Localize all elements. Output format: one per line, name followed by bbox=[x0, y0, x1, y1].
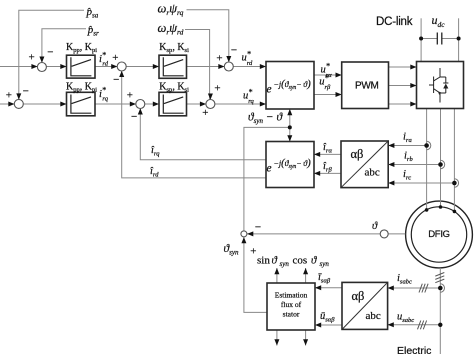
wire i_sabc measure bbox=[388, 287, 441, 289]
svg-text:+: + bbox=[28, 52, 34, 64]
igbt symbol bbox=[429, 68, 448, 103]
wire Ksp2 to SJ6 bbox=[187, 103, 207, 105]
svg-text:+: + bbox=[216, 53, 222, 65]
wire SJ2 to PI2 bbox=[23, 103, 66, 105]
block abc stator bbox=[342, 282, 388, 329]
wire rotor phase c bbox=[453, 109, 455, 212]
wire i_rd feedback bbox=[122, 70, 266, 178]
node dc rail left bbox=[419, 37, 423, 41]
wire PWM to converter b bbox=[389, 85, 417, 87]
block PI power d (Kpp,Kpi) bbox=[67, 55, 96, 78]
svg-text:sin: sin bbox=[257, 255, 270, 267]
svg-text:−: − bbox=[131, 111, 137, 123]
wire rotor phase b bbox=[440, 109, 442, 208]
arrows right-pointing bbox=[31, 64, 37, 69]
svg-text:abc: abc bbox=[366, 310, 381, 322]
arrows left-pointing bbox=[314, 152, 320, 157]
svg-text:αβ: αβ bbox=[351, 147, 364, 161]
svg-text:+: + bbox=[127, 90, 133, 102]
wire E1 to PWM lower bbox=[314, 94, 342, 96]
node rotor b on DFIG bbox=[439, 205, 443, 209]
svg-text:cos: cos bbox=[293, 255, 308, 267]
wire i_rc measure bbox=[388, 182, 452, 184]
wire i_ra measure bbox=[388, 145, 424, 147]
svg-text:syn: syn bbox=[320, 260, 330, 268]
svg-text:e: e bbox=[267, 84, 272, 96]
three-phase slashes i_sabc bbox=[419, 284, 428, 293]
wire encoder theta to SJ7 bbox=[247, 233, 405, 235]
summer SJ3 bbox=[117, 62, 126, 71]
wire EST cos out up bbox=[305, 268, 307, 283]
svg-text:−: − bbox=[47, 47, 53, 59]
wire EST theta_syn out to SJ7 bbox=[244, 237, 267, 312]
block PI current d (Ksp,Ksi) bbox=[159, 55, 187, 78]
wire SJ1 to PI1 bbox=[46, 66, 66, 68]
svg-text:+: + bbox=[250, 246, 256, 258]
wire rotor phase a bbox=[426, 109, 428, 210]
wire EST sin out up bbox=[276, 268, 278, 283]
svg-text:Estimation: Estimation bbox=[275, 291, 308, 300]
pi curve 4 bbox=[163, 95, 183, 114]
svg-text:stator: stator bbox=[283, 310, 300, 319]
block E2 rotation exp bbox=[266, 142, 314, 188]
wire SJ6 to E1 (u_rq*) bbox=[215, 103, 266, 105]
block PWM bbox=[342, 62, 389, 109]
wire PI1 to SJ3 bbox=[95, 66, 118, 68]
svg-text:+: + bbox=[202, 107, 208, 119]
dfig machine bbox=[406, 201, 473, 268]
wire u_sabc measure bbox=[388, 324, 441, 326]
svg-text:ϑ: ϑ bbox=[272, 255, 278, 267]
wire row1 input bbox=[0, 66, 38, 68]
svg-text:+: + bbox=[112, 52, 118, 64]
node theta_syn-theta branch dot bbox=[288, 125, 292, 129]
wire dc-link left leg bbox=[420, 18, 422, 61]
wire PWM to converter c bbox=[389, 103, 417, 105]
wire dot to E1 bottom bbox=[289, 109, 291, 127]
diagonal abc rotor bbox=[342, 142, 388, 187]
node dc rail right bbox=[457, 37, 461, 41]
wire i_rb measure bbox=[388, 164, 438, 166]
wire row2 input bbox=[0, 103, 15, 105]
svg-text:−: − bbox=[255, 222, 261, 234]
arrows up-pointing bbox=[119, 71, 124, 77]
svg-text:−: − bbox=[231, 44, 237, 56]
wire dc-link rail right bbox=[442, 38, 459, 40]
svg-text:flux of: flux of bbox=[281, 300, 302, 309]
wire dc-link rail left bbox=[421, 38, 437, 40]
summer SJ7 theta bbox=[241, 231, 247, 237]
sensor i_sabc bbox=[440, 284, 444, 292]
svg-text:syn: syn bbox=[280, 260, 290, 268]
arrows down-pointing bbox=[39, 57, 44, 63]
block PI power q (Kpp,Kpi) bbox=[67, 92, 96, 116]
svg-text:ϑsyn − ϑ: ϑsyn − ϑ bbox=[248, 112, 284, 126]
svg-text:ϑ: ϑ bbox=[311, 255, 317, 267]
wire SJ3 to Ksp1 bbox=[126, 66, 159, 68]
svg-text:abc: abc bbox=[365, 167, 380, 179]
svg-text:αβ: αβ bbox=[352, 289, 365, 303]
node rotor a on DFIG bbox=[425, 208, 429, 212]
wire abcR to E2 alpha bbox=[314, 153, 341, 155]
wire SJ4 to Ksp2 bbox=[145, 103, 159, 105]
wire psi_rd drop bbox=[185, 30, 210, 101]
capacitor dc-link bbox=[437, 33, 442, 45]
wire SJ5 to E1 (u_rd*) bbox=[233, 66, 266, 68]
wire psi_rq drop bbox=[187, 10, 229, 63]
wire dc-link right leg bbox=[458, 18, 460, 61]
node rotor c on DFIG bbox=[453, 210, 457, 214]
block E1 rotation exp bbox=[266, 62, 314, 110]
wire E1 to PWM upper bbox=[314, 74, 342, 76]
wire theta_syn up to exp blocks bbox=[244, 127, 290, 230]
block converter bbox=[417, 62, 464, 109]
block estimation flux bbox=[267, 283, 315, 330]
svg-text:PWM: PWM bbox=[355, 81, 379, 92]
wire abcS to EST u bbox=[315, 324, 342, 326]
wire Ksp1 to SJ5 bbox=[187, 66, 226, 68]
sensor i_rc bbox=[454, 179, 458, 187]
svg-text:DFIG: DFIG bbox=[428, 229, 450, 240]
diagonal abc stator bbox=[343, 283, 387, 328]
summer SJ5 bbox=[224, 62, 233, 71]
svg-text:ϑ: ϑ bbox=[372, 221, 378, 232]
three-phase slashes u_sabc bbox=[418, 321, 427, 330]
svg-text:e: e bbox=[267, 163, 272, 175]
wire PI2 to SJ4 bbox=[95, 103, 137, 105]
encoder circle bbox=[380, 230, 388, 238]
wire abcS to EST i bbox=[315, 287, 342, 289]
summer SJ2 bbox=[14, 99, 23, 108]
summer SJ4 bbox=[136, 100, 145, 109]
pi curve 1 bbox=[71, 57, 92, 76]
wire abcR to E2 beta bbox=[314, 172, 341, 174]
block abc rotor bbox=[341, 141, 388, 188]
wire p_sr drop bbox=[42, 29, 86, 64]
summer SJ6 bbox=[206, 100, 215, 109]
svg-text:+: + bbox=[214, 82, 220, 94]
svg-text:DC-link: DC-link bbox=[376, 16, 413, 28]
pi curve 3 bbox=[163, 57, 183, 76]
wire p_sa drop bbox=[19, 10, 84, 100]
svg-text:+: + bbox=[6, 90, 12, 102]
hatch marks stator shaft bbox=[435, 273, 444, 283]
wire PWM to converter a bbox=[389, 66, 417, 68]
wire stator line down from DFIG bbox=[439, 268, 441, 354]
svg-text:Electric: Electric bbox=[397, 345, 431, 354]
svg-text:−: − bbox=[23, 86, 29, 98]
node u_sabc tap bbox=[438, 323, 442, 327]
wire dot to E2 top bbox=[289, 127, 291, 141]
wire i_rq feedback bbox=[140, 108, 266, 160]
block PI current q (Ksp,Ksi) bbox=[159, 92, 187, 116]
wire EST out down 1 bbox=[276, 330, 278, 346]
summer SJ1 bbox=[37, 63, 46, 72]
sensor i_rb bbox=[441, 160, 445, 168]
pi curve 2 bbox=[71, 95, 92, 114]
svg-text:−: − bbox=[113, 74, 119, 86]
sensor i_ra bbox=[427, 141, 431, 149]
wire EST out down 2 bbox=[305, 330, 307, 346]
